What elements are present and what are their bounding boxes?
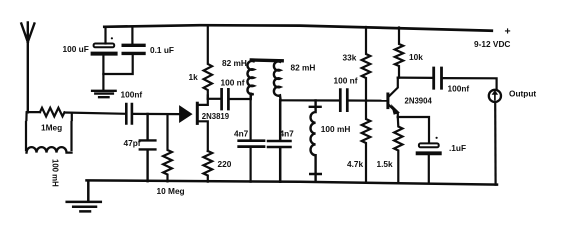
antenna — [21, 23, 34, 113]
svg-text:1Meg: 1Meg — [41, 123, 62, 133]
jfet Q1 2N3819 — [180, 107, 190, 121]
svg-text:100 uF: 100 uF — [63, 44, 89, 54]
svg-text:10k: 10k — [409, 52, 423, 62]
capacitor C 100nf series gate — [126, 104, 132, 123]
svg-text:100 mH: 100 mH — [321, 124, 351, 134]
resistor 1k — [204, 27, 212, 99]
node tick right — [71, 113, 73, 120]
wire bracket left — [25, 122, 27, 150]
svg-text:Output: Output — [509, 89, 536, 99]
svg-text:1.5k: 1.5k — [377, 159, 394, 169]
svg-text:100 nf: 100 nf — [334, 76, 358, 86]
output jack — [489, 90, 501, 102]
inductor 82 mH first — [247, 61, 253, 99]
svg-text:0.1 uF: 0.1 uF — [150, 45, 174, 55]
ground rail bottom — [87, 180, 498, 184]
svg-text:82 mH: 82 mH — [291, 63, 316, 73]
svg-text:10 Meg: 10 Meg — [157, 186, 185, 196]
svg-text:100 mH: 100 mH — [51, 159, 60, 187]
wire emitter junction — [398, 117, 429, 143]
capacitor 47pf — [140, 114, 156, 181]
svg-text:33k: 33k — [343, 53, 357, 63]
wire mid node — [281, 99, 339, 101]
wire drain node — [208, 98, 220, 100]
ground bottom — [67, 181, 101, 212]
capacitor C 100nf base — [340, 90, 347, 111]
capacitor 1uF — [419, 143, 439, 147]
svg-text:100nf: 100nf — [121, 90, 143, 100]
svg-text:2N3819: 2N3819 — [202, 112, 230, 121]
capacitor 4n7 second — [268, 100, 291, 182]
wire cap to base node — [349, 99, 388, 101]
wire rail to 100uF — [104, 28, 106, 44]
svg-text:82 mH: 82 mH — [222, 58, 247, 68]
svg-text:2N3904: 2N3904 — [405, 97, 433, 106]
wire to output jack — [443, 78, 497, 89]
resistor 10k — [395, 28, 403, 78]
inductor 82 mH second — [274, 61, 281, 100]
coupled coil top bar — [251, 58, 282, 62]
resistor 10 Meg — [163, 114, 172, 181]
inductor L 100mH horizontal — [27, 147, 72, 153]
wire rail to 0.1uF — [131, 28, 133, 44]
capacitor 0.1 uF — [123, 44, 144, 47]
resistor R 1Meg — [40, 108, 65, 117]
power rail top — [104, 25, 492, 31]
svg-text:1k: 1k — [189, 72, 199, 82]
wire output return — [494, 102, 497, 184]
resistor 1.5k — [394, 117, 402, 182]
svg-text:100 nf: 100 nf — [221, 78, 245, 88]
svg-text:100nf: 100nf — [448, 84, 470, 94]
inductor 100 mH vertical — [310, 100, 321, 181]
resistor 4.7k — [362, 101, 371, 182]
transistor Q2 2N3904 — [386, 94, 389, 108]
ground top — [92, 91, 116, 97]
capacitor 4n7 first — [239, 141, 264, 147]
svg-text:.1uF: .1uF — [449, 143, 466, 153]
capacitor 100 uF — [94, 44, 115, 48]
wire gate to FET — [133, 113, 180, 115]
node riser to coil1 — [250, 94, 252, 100]
wire cap to node — [230, 98, 251, 100]
node tick left — [25, 113, 27, 121]
svg-text:4.7k: 4.7k — [347, 159, 364, 169]
svg-text:4n7: 4n7 — [234, 129, 249, 139]
capacitor C 100nf drain — [222, 89, 229, 109]
wire collector node to output cap — [398, 76, 432, 79]
svg-text:9-12 VDC: 9-12 VDC — [474, 39, 510, 49]
resistor 220 — [203, 151, 212, 182]
wire bracket right — [70, 122, 72, 150]
svg-text:47pf: 47pf — [124, 138, 141, 148]
svg-text:+: + — [505, 26, 511, 38]
wire node down to 4n7 — [250, 99, 252, 182]
svg-text:4n7: 4n7 — [280, 129, 295, 139]
capacitor C 100nf output — [434, 68, 442, 88]
wire gate rail left — [27, 112, 126, 114]
svg-text:220: 220 — [218, 159, 232, 169]
resistor 33k — [362, 27, 371, 101]
